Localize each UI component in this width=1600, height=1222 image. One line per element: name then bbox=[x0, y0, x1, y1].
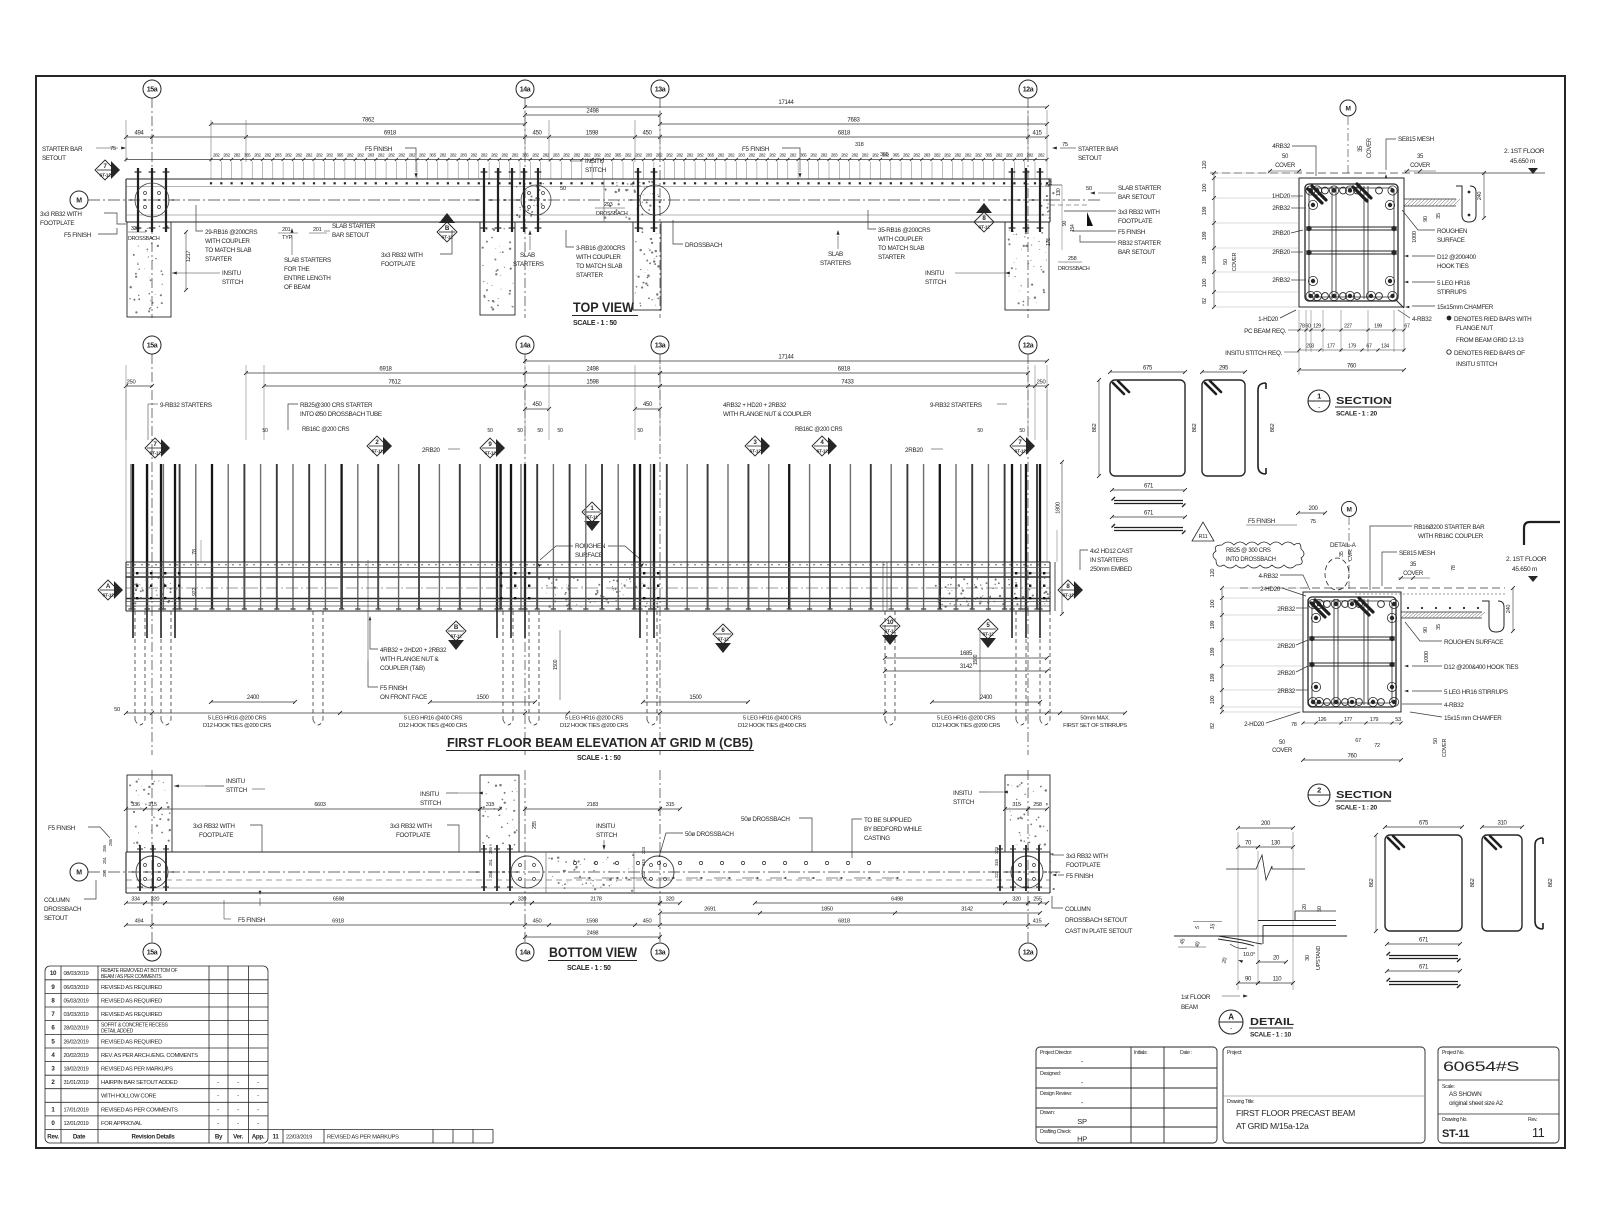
svg-text:Drawing No.: Drawing No. bbox=[1442, 1117, 1467, 1123]
section 1 slab level dashed line bbox=[1210, 172, 1420, 174]
svg-text:315: 315 bbox=[994, 858, 999, 866]
svg-text:COVER: COVER bbox=[1275, 163, 1296, 169]
svg-text:282: 282 bbox=[697, 153, 704, 158]
svg-text:282: 282 bbox=[666, 153, 673, 158]
svg-text:50: 50 bbox=[560, 186, 566, 192]
svg-text:22/03/2019: 22/03/2019 bbox=[286, 1134, 312, 1140]
svg-text:SE815 MESH: SE815 MESH bbox=[1398, 136, 1435, 143]
section 1 chamfer marks bbox=[1396, 300, 1404, 308]
svg-text:F5 FINISH: F5 FINISH bbox=[48, 825, 76, 832]
title block middle box bbox=[1223, 1047, 1425, 1143]
svg-text:FROM BEAM GRID 12-13: FROM BEAM GRID 12-13 bbox=[1456, 337, 1524, 344]
svg-text:FOR THE: FOR THE bbox=[284, 266, 310, 273]
svg-text:BAR SETOUT: BAR SETOUT bbox=[1118, 194, 1156, 201]
svg-text:35: 35 bbox=[1339, 551, 1345, 557]
svg-text:AS SHOWN: AS SHOWN bbox=[1449, 1091, 1482, 1098]
top view dimension 2498 bbox=[525, 114, 660, 116]
svg-text:Date :: Date : bbox=[1180, 1050, 1192, 1056]
elevation 1685 3142 dims bbox=[885, 657, 1047, 659]
svg-text:D12 HOOK TIES @200 CRS: D12 HOOK TIES @200 CRS bbox=[560, 723, 629, 729]
elevation top markers bbox=[145, 438, 165, 458]
svg-text:365: 365 bbox=[880, 152, 889, 158]
stirrup shape 310 rect B bbox=[1482, 835, 1522, 931]
svg-text:17144: 17144 bbox=[778, 100, 794, 106]
svg-text:1598: 1598 bbox=[586, 919, 598, 925]
section 1 right slab with hatch bbox=[1404, 199, 1456, 206]
svg-text:DROSSBACH: DROSSBACH bbox=[44, 906, 82, 913]
svg-text:282: 282 bbox=[398, 153, 405, 158]
svg-text:1800: 1800 bbox=[1056, 502, 1062, 514]
svg-text:1000: 1000 bbox=[1424, 651, 1430, 663]
svg-text:STARTER: STARTER bbox=[878, 254, 905, 261]
elevation bottom stirrup dims line bbox=[126, 712, 1125, 714]
svg-text:50: 50 bbox=[1223, 259, 1229, 265]
detail A 20 bottom dim bbox=[1258, 961, 1286, 963]
svg-text:COUPLER (T&B): COUPLER (T&B) bbox=[380, 665, 425, 672]
svg-text:03/03/2019: 03/03/2019 bbox=[64, 1012, 89, 1018]
svg-text:2RB32: 2RB32 bbox=[1277, 606, 1296, 613]
svg-text:282: 282 bbox=[1006, 153, 1013, 158]
svg-text:450: 450 bbox=[643, 919, 652, 925]
svg-text:REVISED AS REQUIRED: REVISED AS REQUIRED bbox=[101, 985, 162, 991]
svg-text:283: 283 bbox=[1016, 153, 1023, 158]
svg-text:282: 282 bbox=[470, 153, 477, 158]
svg-text:5 LEG HR16 @400 CRS: 5 LEG HR16 @400 CRS bbox=[743, 716, 802, 722]
svg-text:SURFACE: SURFACE bbox=[1437, 237, 1465, 244]
svg-text:315: 315 bbox=[641, 858, 646, 866]
flat tie bar 671 B1 bbox=[1387, 943, 1460, 945]
svg-text:78: 78 bbox=[1451, 565, 1457, 571]
svg-text:365: 365 bbox=[707, 153, 714, 158]
svg-text:12a: 12a bbox=[1023, 342, 1034, 349]
svg-text:BY BEDFORD WHILE: BY BEDFORD WHILE bbox=[864, 826, 922, 833]
hook glyph top right bbox=[1524, 522, 1560, 545]
svg-text:862: 862 bbox=[1092, 424, 1098, 433]
svg-text:3x3 RB32 WITH: 3x3 RB32 WITH bbox=[193, 823, 235, 830]
svg-text:Project Director:: Project Director: bbox=[1040, 1050, 1072, 1056]
svg-text:DROSSBACH: DROSSBACH bbox=[596, 211, 628, 217]
svg-text:D12 @200&400 HOOK TIES: D12 @200&400 HOOK TIES bbox=[1444, 664, 1518, 671]
elevation dims 250 7612 1598 7433 250 bbox=[126, 385, 152, 387]
svg-text:320: 320 bbox=[151, 897, 160, 903]
svg-text:90: 90 bbox=[1062, 221, 1068, 226]
svg-text:1500: 1500 bbox=[553, 659, 559, 670]
svg-text:REVISED AS PER COMMENTS: REVISED AS PER COMMENTS bbox=[101, 1107, 178, 1113]
section 2 mesh curl right bbox=[1482, 601, 1504, 632]
svg-text:RB25 @ 300 CRS: RB25 @ 300 CRS bbox=[1226, 548, 1271, 554]
svg-text:10: 10 bbox=[887, 619, 894, 626]
svg-text:282: 282 bbox=[264, 153, 271, 158]
svg-text:6818: 6818 bbox=[838, 131, 851, 137]
svg-text:2498: 2498 bbox=[586, 367, 599, 373]
svg-text:50: 50 bbox=[637, 428, 643, 434]
svg-text:922: 922 bbox=[192, 588, 198, 596]
svg-text:282: 282 bbox=[316, 153, 323, 158]
svg-text:D12 HOOK TIES @400 CRS: D12 HOOK TIES @400 CRS bbox=[399, 723, 468, 729]
elevation 1800 rotated dim bbox=[1061, 462, 1063, 614]
svg-text:6818: 6818 bbox=[838, 367, 851, 373]
top view beam outline bbox=[126, 178, 1050, 180]
svg-text:760: 760 bbox=[1347, 364, 1357, 370]
svg-text:282: 282 bbox=[913, 153, 920, 158]
svg-text:282: 282 bbox=[357, 153, 364, 158]
svg-text:INSITU STITCH REQ.: INSITU STITCH REQ. bbox=[1225, 350, 1282, 357]
svg-text:SETOUT: SETOUT bbox=[44, 915, 68, 922]
svg-text:R11: R11 bbox=[1199, 534, 1208, 540]
top view dimension 17144 bbox=[525, 106, 1047, 108]
svg-text:365: 365 bbox=[337, 153, 344, 158]
svg-text:26/02/2019: 26/02/2019 bbox=[64, 1039, 89, 1045]
slab starter dots on beam bbox=[210, 182, 1048, 184]
svg-text:4RB32: 4RB32 bbox=[1272, 143, 1291, 150]
svg-text:ST-11: ST-11 bbox=[586, 514, 598, 519]
svg-text:D12 HOOK TIES @400 CRS: D12 HOOK TIES @400 CRS bbox=[738, 723, 807, 729]
svg-text:2. 1ST FLOOR: 2. 1ST FLOOR bbox=[1506, 556, 1547, 563]
svg-text:ST-12: ST-12 bbox=[884, 628, 896, 633]
svg-text:179: 179 bbox=[1348, 344, 1356, 350]
svg-text:240: 240 bbox=[1477, 192, 1483, 201]
svg-text:282: 282 bbox=[656, 153, 663, 158]
svg-text:REVISED AS REQUIRED: REVISED AS REQUIRED bbox=[101, 1039, 162, 1045]
svg-text:15x15mm CHAMFER: 15x15mm CHAMFER bbox=[1437, 304, 1494, 311]
svg-text:3x3 RB32 WITH: 3x3 RB32 WITH bbox=[40, 211, 82, 218]
svg-text:282: 282 bbox=[254, 153, 261, 158]
svg-text:3142: 3142 bbox=[961, 907, 973, 913]
svg-text:F5 FINISH: F5 FINISH bbox=[742, 146, 770, 153]
svg-text:50: 50 bbox=[1282, 154, 1289, 160]
svg-text:6498: 6498 bbox=[891, 897, 903, 903]
svg-text:671: 671 bbox=[1419, 965, 1429, 971]
svg-text:1685: 1685 bbox=[960, 651, 973, 657]
svg-text:35: 35 bbox=[1436, 213, 1442, 219]
detail A extension lines bbox=[1237, 832, 1239, 990]
elevation band footplate dots at columns bbox=[136, 572, 1045, 599]
svg-text:4x2 HD12 CAST: 4x2 HD12 CAST bbox=[1090, 548, 1133, 555]
svg-text:50mm MAX.: 50mm MAX. bbox=[1080, 716, 1110, 722]
svg-text:1217: 1217 bbox=[186, 251, 192, 262]
svg-text:13a: 13a bbox=[655, 86, 666, 93]
svg-text:2RB32: 2RB32 bbox=[1277, 688, 1296, 695]
svg-text:90: 90 bbox=[1423, 627, 1429, 633]
svg-text:134: 134 bbox=[1381, 344, 1389, 350]
svg-text:1500: 1500 bbox=[973, 654, 979, 665]
section 2 stirrups bbox=[1308, 597, 1396, 707]
svg-text:Rev.: Rev. bbox=[47, 1133, 59, 1140]
elevation beam speckles insitu zones bbox=[546, 577, 659, 608]
svg-text:100: 100 bbox=[1202, 279, 1208, 288]
svg-text:ROUGHEN SURFACE: ROUGHEN SURFACE bbox=[1444, 639, 1503, 646]
svg-text:50: 50 bbox=[487, 428, 493, 434]
svg-text:282: 282 bbox=[419, 153, 426, 158]
svg-text:50: 50 bbox=[537, 428, 543, 434]
svg-text:A: A bbox=[1228, 1013, 1234, 1022]
svg-text:14a: 14a bbox=[520, 342, 531, 349]
bottom view dashed arrows row bbox=[574, 877, 586, 879]
below beam markers bbox=[446, 621, 466, 641]
svg-text:336: 336 bbox=[131, 226, 140, 232]
svg-text:178: 178 bbox=[1046, 238, 1052, 246]
svg-text:201: 201 bbox=[313, 227, 322, 233]
svg-text:COVER: COVER bbox=[1442, 739, 1448, 758]
svg-text:-: - bbox=[217, 1080, 219, 1086]
svg-text:283: 283 bbox=[275, 153, 282, 158]
svg-text:RB32 STARTER: RB32 STARTER bbox=[1118, 240, 1161, 247]
svg-text:3x3 RB32 WITH: 3x3 RB32 WITH bbox=[390, 823, 432, 830]
svg-text:STARTERS: STARTERS bbox=[513, 261, 544, 268]
svg-text:2183: 2183 bbox=[587, 802, 598, 808]
elevation extension verticals bbox=[125, 365, 127, 440]
svg-text:SLAB STARTER: SLAB STARTER bbox=[332, 223, 376, 230]
svg-text:-: - bbox=[237, 1107, 239, 1113]
svg-text:5 LEG HR16 @200 CRS: 5 LEG HR16 @200 CRS bbox=[208, 716, 267, 722]
svg-text:FIRST FLOOR BEAM ELEVATION AT: FIRST FLOOR BEAM ELEVATION AT GRID M (CB… bbox=[447, 735, 753, 750]
svg-text:SECTION: SECTION bbox=[1336, 395, 1392, 407]
svg-text:6818: 6818 bbox=[838, 919, 850, 925]
svg-text:D12 @200/400: D12 @200/400 bbox=[1437, 254, 1477, 261]
svg-text:315: 315 bbox=[486, 802, 495, 808]
svg-text:50: 50 bbox=[1317, 906, 1323, 912]
svg-text:D12 HOOK TIES @200 CRS: D12 HOOK TIES @200 CRS bbox=[203, 723, 272, 729]
svg-text:ST-12: ST-12 bbox=[978, 224, 990, 229]
svg-text:DENOTES RIED BARS WITH: DENOTES RIED BARS WITH bbox=[1454, 316, 1532, 323]
svg-text:255: 255 bbox=[532, 821, 538, 829]
svg-text:200: 200 bbox=[1261, 821, 1271, 827]
svg-text:FOOTPLATE: FOOTPLATE bbox=[1118, 218, 1152, 225]
svg-text:Project:: Project: bbox=[1227, 1050, 1242, 1056]
svg-text:INSITU: INSITU bbox=[925, 270, 945, 277]
svg-text:COLUMN: COLUMN bbox=[1065, 906, 1091, 913]
svg-text:50: 50 bbox=[1019, 428, 1025, 434]
svg-text:78: 78 bbox=[192, 549, 198, 555]
svg-text:2RB20: 2RB20 bbox=[1277, 643, 1296, 650]
svg-text:ST-11: ST-11 bbox=[1442, 1128, 1469, 1140]
bottom view circle inner dots bbox=[144, 864, 147, 867]
svg-text:TYP.: TYP. bbox=[282, 235, 293, 241]
drossbach circles top view bbox=[135, 183, 169, 217]
section 2 horizontal bars bbox=[1309, 636, 1395, 638]
svg-text:45.650 m: 45.650 m bbox=[1512, 566, 1538, 573]
svg-text:862: 862 bbox=[1270, 424, 1276, 433]
svg-text:OF BEAM: OF BEAM bbox=[284, 284, 310, 291]
svg-text:HP: HP bbox=[1077, 1135, 1087, 1144]
svg-text:28/02/2019: 28/02/2019 bbox=[64, 1026, 89, 1032]
elevation beam stirrup verticals bbox=[131, 562, 1040, 611]
elevation dim 17144 bbox=[525, 360, 1047, 362]
svg-text:INSITU: INSITU bbox=[222, 270, 242, 277]
svg-text:177: 177 bbox=[1327, 344, 1335, 350]
svg-text:1-HD20: 1-HD20 bbox=[1258, 316, 1279, 323]
svg-text:100: 100 bbox=[1202, 184, 1208, 193]
svg-text:50: 50 bbox=[262, 428, 268, 434]
svg-text:5 LEG HR16: 5 LEG HR16 bbox=[1437, 280, 1470, 287]
svg-text:4-RB32: 4-RB32 bbox=[1412, 316, 1432, 323]
svg-text:251: 251 bbox=[102, 856, 107, 864]
section 2 200 dim bbox=[1298, 512, 1325, 514]
svg-text:199: 199 bbox=[1210, 621, 1216, 630]
elevation dims 6918 2498 bbox=[246, 372, 525, 374]
svg-text:282: 282 bbox=[512, 153, 519, 158]
svg-text:13a: 13a bbox=[655, 342, 666, 349]
svg-text:2RB20: 2RB20 bbox=[1277, 670, 1296, 677]
svg-text:FOR APPROVAL: FOR APPROVAL bbox=[101, 1121, 143, 1127]
svg-text:15a: 15a bbox=[147, 949, 158, 956]
svg-text:STITCH: STITCH bbox=[420, 800, 442, 807]
svg-text:282: 282 bbox=[996, 153, 1003, 158]
svg-text:1598: 1598 bbox=[586, 131, 599, 137]
svg-text:20/02/2019: 20/02/2019 bbox=[64, 1053, 89, 1059]
svg-text:283: 283 bbox=[645, 153, 652, 158]
section 2 rebar rows bbox=[1308, 599, 1398, 608]
svg-text:282: 282 bbox=[573, 153, 580, 158]
svg-text:STARTER: STARTER bbox=[576, 272, 603, 279]
svg-text:WITH HOLLOW CORE: WITH HOLLOW CORE bbox=[101, 1094, 157, 1100]
svg-text:SCALE - 1 : 50: SCALE - 1 : 50 bbox=[567, 965, 611, 972]
svg-text:ST-12: ST-12 bbox=[484, 450, 496, 455]
svg-text:2RB20: 2RB20 bbox=[1272, 230, 1291, 237]
svg-text:100: 100 bbox=[1210, 600, 1216, 609]
svg-text:6918: 6918 bbox=[384, 131, 397, 137]
svg-text:SCALE - 1 : 50: SCALE - 1 : 50 bbox=[573, 320, 617, 327]
svg-text:COLUMN: COLUMN bbox=[44, 897, 70, 904]
svg-text:6918: 6918 bbox=[332, 919, 344, 925]
svg-text:82: 82 bbox=[1202, 298, 1208, 304]
svg-text:283: 283 bbox=[460, 153, 467, 158]
svg-text:282: 282 bbox=[821, 153, 828, 158]
svg-text:ST-12: ST-12 bbox=[450, 633, 462, 638]
svg-text:255: 255 bbox=[102, 844, 107, 852]
svg-text:-: - bbox=[1318, 404, 1320, 411]
svg-text:282: 282 bbox=[1027, 153, 1034, 158]
svg-text:240: 240 bbox=[1506, 605, 1512, 614]
section 2 interior verticals bbox=[1333, 599, 1335, 705]
svg-text:282: 282 bbox=[532, 153, 539, 158]
svg-text:293: 293 bbox=[604, 202, 613, 208]
svg-text:COVER: COVER bbox=[1367, 137, 1373, 158]
svg-text:PC BEAM REQ.: PC BEAM REQ. bbox=[1244, 328, 1286, 335]
svg-text:12a: 12a bbox=[1023, 949, 1034, 956]
svg-text:179: 179 bbox=[1370, 717, 1379, 723]
282 labels bbox=[213, 153, 1045, 158]
svg-text:FOOTPLATE: FOOTPLATE bbox=[199, 832, 233, 839]
svg-text:282: 282 bbox=[223, 153, 230, 158]
svg-text:75: 75 bbox=[1310, 519, 1316, 525]
svg-text:FOOTPLATE: FOOTPLATE bbox=[381, 261, 415, 268]
B ST-12 marker top view bbox=[437, 222, 457, 242]
top view hairpin bar groups at columns bbox=[137, 168, 139, 232]
svg-text:50: 50 bbox=[1279, 740, 1286, 746]
section 1 left dim stack bbox=[1213, 173, 1215, 307]
elevation bar bottom feet bbox=[128, 608, 1042, 610]
svg-text:255: 255 bbox=[1033, 897, 1042, 903]
svg-text:RB25@300 CRS STARTER: RB25@300 CRS STARTER bbox=[300, 402, 373, 409]
svg-text:7433: 7433 bbox=[841, 380, 854, 386]
svg-text:FIRST FLOOR PRECAST BEAM: FIRST FLOOR PRECAST BEAM bbox=[1236, 1108, 1355, 1118]
section 1 top rebar row bbox=[1306, 186, 1397, 195]
svg-text:199: 199 bbox=[1202, 232, 1208, 241]
section 1 2RB20 horizontal pairs bbox=[1306, 226, 1397, 228]
svg-text:100: 100 bbox=[1048, 178, 1054, 186]
svg-text:SCALE - 1 : 20: SCALE - 1 : 20 bbox=[1336, 805, 1378, 812]
svg-text:320: 320 bbox=[518, 897, 527, 903]
svg-text:SCALE - 1 : 10: SCALE - 1 : 10 bbox=[1250, 1032, 1292, 1039]
svg-text:3142: 3142 bbox=[960, 664, 973, 670]
svg-text:2RB20: 2RB20 bbox=[422, 447, 441, 454]
svg-text:53: 53 bbox=[1395, 717, 1401, 723]
svg-text:199: 199 bbox=[1202, 256, 1208, 265]
svg-text:283: 283 bbox=[924, 153, 931, 158]
svg-text:INSITU STITCH: INSITU STITCH bbox=[1456, 361, 1498, 368]
top view dimension row 494/6918/450/1598/450/6818/415 bbox=[126, 136, 1047, 138]
svg-text:82: 82 bbox=[1210, 723, 1216, 729]
svg-text:M: M bbox=[1345, 105, 1350, 112]
elevation starter bars bbox=[130, 464, 132, 609]
svg-text:177: 177 bbox=[1344, 717, 1353, 723]
svg-text:M: M bbox=[76, 197, 82, 204]
svg-text:78: 78 bbox=[1291, 722, 1297, 728]
svg-text:15a: 15a bbox=[147, 342, 158, 349]
svg-text:282: 282 bbox=[635, 153, 642, 158]
svg-text:318: 318 bbox=[855, 142, 864, 148]
svg-text:STARTER: STARTER bbox=[205, 256, 232, 263]
detail A upstand step bbox=[1258, 920, 1336, 922]
svg-text:18/02/2019: 18/02/2019 bbox=[64, 1067, 89, 1073]
svg-text:DETAIL: DETAIL bbox=[1250, 1016, 1295, 1028]
svg-text:11: 11 bbox=[273, 1133, 280, 1140]
title block left box bbox=[1036, 1047, 1217, 1143]
svg-text:67: 67 bbox=[1404, 324, 1410, 330]
elevation 2400 1500 dims bbox=[211, 701, 295, 703]
svg-text:F5 FINISH: F5 FINISH bbox=[1248, 518, 1276, 525]
svg-text:SETOUT: SETOUT bbox=[42, 155, 66, 162]
section 2 outer rect bbox=[1303, 592, 1401, 712]
revision table bbox=[45, 966, 493, 1143]
bottom view dashed line bbox=[126, 879, 1050, 881]
svg-text:9-RB32 STARTERS: 9-RB32 STARTERS bbox=[930, 402, 982, 409]
detail A break line bbox=[1226, 855, 1305, 880]
svg-text:282: 282 bbox=[306, 153, 313, 158]
svg-text:282: 282 bbox=[1038, 153, 1045, 158]
stirrup hook shape A bbox=[1258, 383, 1266, 474]
svg-text:70: 70 bbox=[1245, 841, 1252, 847]
svg-text:223: 223 bbox=[994, 846, 999, 854]
svg-text:COVER: COVER bbox=[1272, 748, 1293, 754]
svg-text:2-HD20: 2-HD20 bbox=[1244, 721, 1265, 728]
svg-text:SLAB: SLAB bbox=[520, 252, 535, 259]
svg-text:SLAB STARTERS: SLAB STARTERS bbox=[284, 257, 331, 264]
svg-text:TOP VIEW: TOP VIEW bbox=[573, 300, 634, 315]
svg-text:282: 282 bbox=[625, 153, 632, 158]
svg-text:12a: 12a bbox=[1023, 86, 1034, 93]
svg-text:365: 365 bbox=[893, 153, 900, 158]
svg-text:WITH FLANGE NUT & COUPLER: WITH FLANGE NUT & COUPLER bbox=[723, 411, 812, 418]
elevation mid marker 1 ST-11 bbox=[582, 502, 602, 522]
8 ST-12 marker bbox=[974, 212, 994, 232]
top view extension verticals bbox=[125, 120, 127, 162]
svg-text:RB16C @200 CRS: RB16C @200 CRS bbox=[302, 427, 350, 433]
svg-text:3x3 RB32 WITH: 3x3 RB32 WITH bbox=[1066, 853, 1108, 860]
svg-text:282: 282 bbox=[954, 153, 961, 158]
svg-text:110: 110 bbox=[1273, 977, 1283, 983]
section 1 mesh curl bbox=[1456, 186, 1476, 222]
svg-text:2: 2 bbox=[1317, 786, 1321, 795]
svg-text:35: 35 bbox=[1436, 624, 1442, 630]
svg-text:M: M bbox=[1346, 506, 1351, 513]
svg-text:282: 282 bbox=[687, 153, 694, 158]
svg-text:11: 11 bbox=[1532, 1126, 1545, 1140]
svg-text:SLAB: SLAB bbox=[828, 251, 843, 258]
svg-text:COVER: COVER bbox=[1232, 253, 1238, 272]
svg-text:Designed:: Designed: bbox=[1040, 1071, 1061, 1077]
